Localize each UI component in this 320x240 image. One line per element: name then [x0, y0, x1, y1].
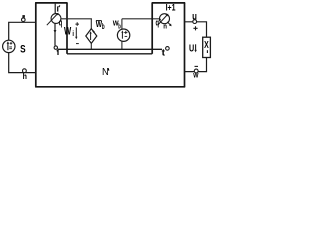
bottom rail B: [67, 53, 152, 55]
outer box N' bottom edge: [35, 86, 185, 88]
svg-text:U: U: [189, 44, 194, 55]
bottom rail A (terminal wire): [58, 48, 162, 50]
svg-text:q: q: [156, 18, 160, 28]
svg-text:w: w: [192, 70, 199, 79]
dependent source diamond W-bar_b: [86, 29, 97, 44]
svg-text:t: t: [162, 48, 165, 58]
label 1: [57, 50, 58, 55]
minus of W_i: [76, 43, 79, 45]
wire from I'q down to terminal 1: [54, 23, 56, 45]
wire from source S bottom to box: [9, 53, 36, 73]
plus of W_i: [75, 22, 79, 26]
terminal u: [193, 20, 197, 24]
terminal h (bottom left): [23, 69, 27, 73]
inner vertical wire right (x=152.2): [151, 3, 153, 54]
terminal 1: [54, 46, 57, 49]
current source q'n: [160, 14, 170, 24]
svg-text:h: h: [23, 72, 27, 81]
output bottom wire: [185, 58, 207, 72]
arrow of I'q: [47, 14, 58, 25]
label W-bar_b: [96, 20, 102, 22]
svg-text:b: b: [102, 22, 105, 31]
source S arrow: [7, 43, 9, 50]
minus at output: [195, 65, 199, 67]
output top wire: [185, 22, 207, 37]
plus at output: [193, 26, 197, 30]
current source I'q: [51, 14, 61, 24]
wire from source S top to box: [9, 22, 36, 40]
terminal w: [194, 69, 198, 73]
svg-text:W: W: [64, 25, 72, 37]
terminal a (top left): [22, 18, 26, 22]
svg-text:n: n: [163, 21, 167, 30]
stub from rail to diamond: [90, 19, 92, 29]
outer box N' top edge left segment: [35, 2, 68, 4]
stub source to bottom rail: [121, 41, 123, 49]
svg-text:S: S: [20, 43, 26, 55]
source S plus: [10, 42, 13, 45]
outer box N' right edge: [184, 3, 186, 87]
outer box N' top edge right segment: [152, 2, 186, 4]
source S circle: [3, 40, 15, 52]
svg-text:I+1: I+1: [166, 2, 176, 13]
svg-text:i: i: [72, 31, 74, 38]
label I': [57, 6, 59, 11]
terminal 1': [166, 47, 170, 51]
inner top rail piece 1: [61, 18, 92, 20]
outer box N' left edge: [35, 3, 37, 87]
stub diamond to bottom rail: [90, 43, 92, 49]
small arrow at q'n lower right: [167, 22, 170, 25]
voltage arrow W_i down: [75, 27, 77, 37]
svg-text:u: u: [192, 12, 197, 23]
independent source W_b (circle): [117, 29, 129, 41]
inner top rail piece 2: [122, 18, 160, 20]
svg-text:X: X: [204, 40, 209, 51]
stub rail to round source: [121, 19, 123, 29]
inner vertical wire left (x=67): [66, 3, 68, 54]
wire from top edge down to source I'q: [54, 4, 56, 14]
source S dashes: [9, 47, 12, 49]
load impedance X: [203, 37, 211, 57]
